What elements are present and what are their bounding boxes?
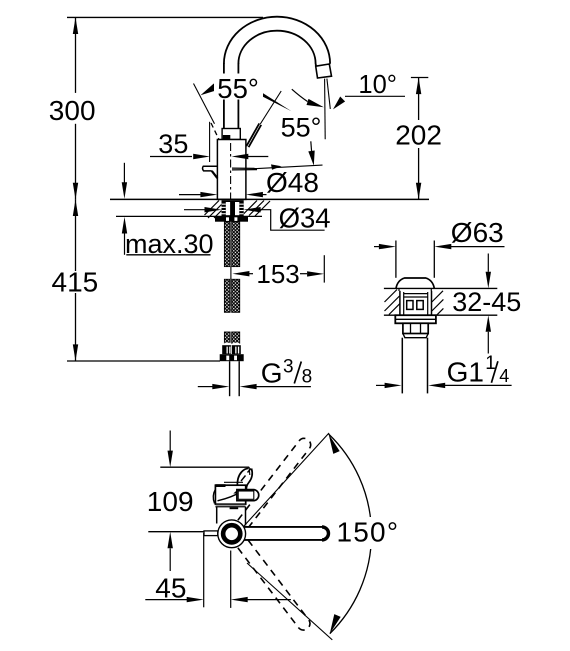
lever block front	[237, 490, 259, 501]
dimension 32-45	[487, 254, 489, 272]
max.30 upper arrow	[123, 163, 125, 184]
drain deck hatch left	[385, 290, 400, 315]
drain deck bottom line	[384, 314, 497, 316]
spout seen from front: curls	[246, 469, 252, 490]
109 upper arrow	[169, 431, 171, 453]
G3/8 threaded tails	[229, 361, 231, 396]
arrow 415 bottom	[73, 344, 78, 361]
dia34 stepped leader	[260, 210, 325, 231]
spout dashes	[241, 476, 246, 482]
handle stub left	[203, 166, 218, 171]
svg-text:4: 4	[499, 366, 509, 386]
dashed lever up position	[211, 123, 220, 141]
head cap block	[215, 485, 245, 504]
arc arrowhead top	[329, 434, 340, 454]
hose centerline in break	[230, 267, 232, 280]
lever rotated up (thick)	[246, 123, 259, 146]
max.30 reference line	[116, 215, 262, 217]
10 deg leader line	[345, 95, 405, 97]
drain neck	[399, 291, 401, 315]
deck hatch right	[244, 201, 271, 217]
mounting washer under deck	[215, 216, 248, 221]
hose end flange	[220, 354, 244, 361]
svg-text:Ø63: Ø63	[451, 217, 504, 248]
dimension G3/8	[198, 386, 214, 388]
angle ray left (55 deg)	[194, 84, 215, 124]
109 lower reference line	[148, 531, 204, 533]
svg-text:150°: 150°	[337, 517, 400, 548]
label 55 deg (first)	[214, 74, 263, 100]
drain dome cap	[396, 278, 434, 288]
svg-text:10°: 10°	[358, 71, 397, 99]
deck hatch left	[205, 201, 232, 219]
lever stadium (solid position)	[242, 527, 329, 540]
dimension 415 vertical line	[75, 199, 77, 271]
150 deg swing arc	[329, 434, 372, 634]
body centerline	[230, 143, 232, 199]
svg-text:G: G	[261, 357, 283, 388]
arrow 300 bottom	[73, 183, 78, 200]
153 extension line	[323, 255, 325, 282]
arc arrowhead bottom	[330, 614, 341, 634]
arrow 202 bottom	[416, 183, 421, 200]
svg-text:109: 109	[147, 486, 194, 517]
dashed lever position up	[238, 438, 311, 528]
109 top reference line	[160, 466, 249, 468]
hose end braid	[224, 332, 230, 343]
nozzle vertical reference line	[324, 79, 327, 140]
column body	[216, 507, 218, 524]
hose connection nuts	[222, 345, 241, 354]
drain: dia63 extension lines	[395, 241, 397, 278]
max.30 underline	[126, 254, 210, 256]
arrow 415 top	[73, 199, 78, 216]
dimension 202 vertical line	[418, 78, 420, 121]
drain tailpipe	[401, 338, 403, 394]
faucet body	[217, 140, 246, 200]
svg-text:32-45: 32-45	[452, 287, 521, 317]
arrow 55-2 upper	[307, 99, 324, 107]
wedge detail	[233, 490, 237, 493]
hose crimp collars	[224, 343, 230, 346]
svg-text:55°: 55°	[281, 113, 322, 143]
arrow 10 deg	[333, 97, 345, 110]
dimension dia48 line	[179, 194, 201, 196]
drain overflow holes	[407, 301, 413, 310]
flexible hose braid lower	[224, 279, 230, 312]
leader arrowhead	[271, 164, 282, 169]
svg-text:G1: G1	[447, 356, 484, 387]
dashed lever position down	[238, 540, 310, 630]
label 150 deg	[334, 517, 401, 549]
max.30 lower arrow	[124, 233, 126, 255]
drain taper	[403, 334, 428, 338]
arrow 55-2 lower with tail	[310, 141, 313, 151]
45 extension line left	[203, 533, 205, 607]
dimension dia34 arrows	[184, 209, 205, 211]
upper swing ray	[244, 433, 329, 526]
leader line to dia 48	[257, 165, 323, 169]
column tick	[230, 507, 239, 509]
lever extension line (35 dim)	[209, 122, 211, 162]
pivot ring outer	[218, 520, 246, 548]
lever up ray	[260, 91, 281, 124]
drain washer	[395, 315, 436, 323]
arrow 55-1 left	[201, 84, 218, 96]
handle stub right	[232, 167, 257, 169]
threaded shank through deck	[222, 200, 244, 216]
pivot ring thick	[223, 525, 240, 542]
45 extension line right	[230, 551, 232, 608]
top reference line (300 dim, tangent to spout)	[67, 16, 263, 18]
arrow 202 top	[416, 78, 421, 95]
dimension 153	[232, 271, 249, 276]
svg-text:Ø34: Ø34	[279, 202, 331, 233]
head left silhouette curve	[213, 489, 215, 504]
spout nozzle cap	[316, 64, 332, 78]
cartridge curve inside head	[218, 491, 244, 501]
spout outer arc	[224, 17, 330, 64]
cartridge collar	[222, 129, 240, 140]
svg-text:55°: 55°	[217, 73, 259, 104]
dimension 35 line	[150, 156, 192, 158]
spout riser pipe	[223, 63, 225, 129]
flexible hose braid upper	[224, 222, 230, 267]
svg-text:35: 35	[158, 129, 188, 159]
svg-text:153: 153	[256, 259, 299, 289]
pivot tab left	[204, 531, 218, 536]
dimension G1 1/4	[376, 384, 385, 386]
deck line	[110, 198, 429, 200]
dimension 45	[145, 599, 187, 601]
svg-text:415: 415	[52, 267, 99, 298]
109 lower arrow	[168, 532, 173, 549]
arrow 55-1 right	[254, 88, 292, 112]
202 top tick	[411, 77, 428, 79]
base ring band	[216, 504, 246, 506]
nozzle axis line 10 deg	[327, 79, 330, 109]
lower swing ray	[247, 563, 332, 640]
svg-text:300: 300	[49, 95, 96, 126]
svg-text:8: 8	[302, 366, 313, 387]
drain deck hatch right	[432, 291, 444, 315]
svg-text:3: 3	[283, 357, 294, 378]
arc 55-2	[292, 89, 308, 101]
dimension dia63	[374, 246, 380, 248]
svg-text:Ø48: Ø48	[266, 167, 319, 198]
415 bottom reference line	[67, 360, 220, 362]
dimension 300 vertical line	[75, 17, 77, 93]
arrow 300 top	[73, 17, 78, 34]
svg-text:202: 202	[395, 120, 442, 151]
drain locknut	[403, 323, 428, 333]
spout inner arc	[238, 31, 316, 66]
drain deck top line	[384, 287, 497, 289]
collar hinge block	[223, 135, 231, 140]
svg-text:45: 45	[155, 573, 186, 604]
